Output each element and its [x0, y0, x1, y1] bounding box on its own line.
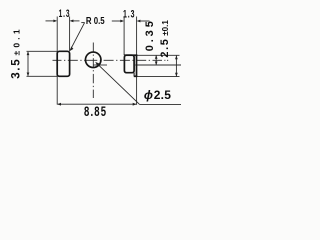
part: right bottom edge [134, 75, 138, 77]
dim 2.5 dimension line [175, 56, 177, 77]
arrowheads dim 1.3 left [53, 20, 57, 23]
dim 1.3 left: extension tick / part left edge extended [56, 17, 58, 105]
svg-text:8.85: 8.85 [84, 103, 107, 119]
arrowhead R0.5 leader [70, 47, 74, 52]
leader R0.5 diagonal [70, 23, 85, 51]
right extension line mid (internal edge extended) [135, 64, 181, 66]
part: left slot [57, 51, 69, 76]
dim 8.85 dimension line [58, 103, 137, 105]
dim 1.3 left: extension tick right [69, 17, 71, 52]
part: right slot [124, 55, 134, 72]
arrowheads dim 2.5 [175, 55, 178, 59]
dim 0.35 dimension line vertical [155, 55, 157, 65]
leader R0.5 stub [81, 22, 84, 24]
svg-text:1.3: 1.3 [59, 7, 71, 19]
svg-text:1.3: 1.3 [123, 8, 135, 20]
part: right top edge [124, 54, 137, 56]
part: right edge [136, 55, 138, 77]
arrowheads dim 0.35 [155, 55, 158, 59]
arrowhead phi2.5 leader [95, 62, 99, 66]
dim 1.3 left: dimension line tails [46, 20, 54, 22]
dim 3.5 dimension line [27, 52, 29, 76]
dim 3.5 extension line bottom [27, 75, 58, 77]
svg-text:ϕ2.5: ϕ2.5 [144, 88, 171, 102]
arrowheads dim 1.3 right [120, 20, 124, 23]
arrowheads dim 3.5 [27, 51, 30, 55]
svg-text:R 0.5: R 0.5 [86, 15, 105, 26]
centerline horizontal [53, 59, 169, 61]
dim 1.3 right: dimension line tails [112, 20, 121, 22]
svg-text:3.5±0.1: 3.5±0.1 [10, 26, 22, 79]
leader phi2.5 diagonal [98, 64, 140, 104]
part: right slot edge lower stub [133, 73, 135, 77]
right extension line top [137, 54, 180, 56]
right extension line bottom [137, 76, 180, 78]
leader phi2.5 horizontal [140, 104, 181, 106]
centerline vertical [92, 43, 94, 99]
dim 1.3 right: extension tick left [123, 17, 125, 56]
internal edge near hole [93, 64, 107, 66]
svg-text:2.5±0.1: 2.5±0.1 [159, 20, 171, 58]
dim 3.5 extension line top [27, 50, 58, 52]
dim 1.3 right: extension tick / part right edge extended [136, 17, 138, 105]
svg-text:0.35: 0.35 [144, 18, 156, 51]
part: hole circle [85, 52, 101, 68]
arrowheads dim 8.85 [57, 103, 61, 106]
